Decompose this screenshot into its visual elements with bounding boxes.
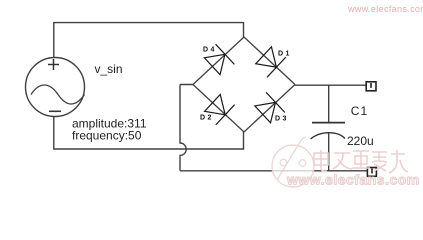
bridge diamond: bottom-right side (244, 85, 295, 133)
bridge diamond: bottom-left side (193, 85, 244, 133)
watermark logo circle (272, 137, 314, 187)
svg-text:www.elecfans.com: www.elecfans.com (347, 4, 423, 14)
svg-text:D4: D4 (203, 47, 217, 54)
svg-text:frequency:50: frequency:50 (72, 129, 142, 143)
svg-text:D1: D1 (278, 51, 292, 58)
wire: bridge right node to output port (295, 84, 366, 86)
source minus sign (49, 110, 61, 112)
svg-text:220u: 220u (347, 134, 374, 148)
output port top (366, 82, 376, 91)
wire: source + terminal to bridge top node (54, 23, 244, 58)
diode D2 (203, 93, 235, 125)
wire C1 bottom lead (328, 133, 330, 170)
capacitor C1 curved plate (311, 133, 346, 139)
diode D4 (203, 44, 235, 76)
diode D1 (254, 45, 286, 77)
bridge diamond: top-right side (244, 37, 295, 85)
wire: source - terminal to bridge bottom node (54, 117, 244, 150)
svg-text:www.elecfans.com: www.elecfans.com (286, 172, 420, 188)
source sine wave (31, 85, 85, 104)
wire: bottom ground rail to output port (180, 170, 367, 172)
svg-text:D2: D2 (200, 115, 214, 122)
diode D3 (253, 92, 285, 124)
voltage source v_sin circle (26, 58, 85, 117)
capacitor C1 top plate (312, 122, 345, 124)
watermark chinese calligraphy strokes (314, 150, 408, 173)
source plus sign (48, 59, 59, 70)
wire C1 top lead (328, 85, 330, 122)
svg-text:v_sin: v_sin (95, 62, 123, 76)
wire: bridge left node down to ground rail (with hop over) (180, 85, 193, 171)
output port bottom (367, 168, 376, 177)
svg-text:D3: D3 (275, 116, 289, 123)
bridge diamond: top-left side (193, 37, 244, 85)
svg-text:C1: C1 (351, 104, 369, 118)
